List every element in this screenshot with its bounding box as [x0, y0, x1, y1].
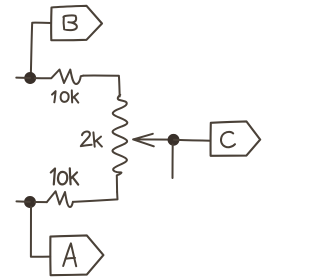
wire bottom node to resistor: [35, 201, 47, 203]
wire node to flag A: [31, 207, 50, 257]
wire wiper stub down: [172, 145, 174, 179]
wire left tail bottom: [17, 200, 30, 203]
resistor 10k top (squiggle): [35, 70, 84, 85]
junction dot wiper: [168, 135, 178, 145]
label 2k: [81, 131, 102, 146]
flag B: [51, 6, 102, 40]
wire pot bottom to corner: [73, 192, 118, 202]
flag C: [211, 121, 261, 155]
wire resistor to pot top: [83, 76, 119, 97]
junction dot top-left: [25, 73, 35, 83]
wire left tail top: [16, 77, 30, 79]
wire wiper to C: [174, 139, 210, 142]
wire B to top-left node: [31, 23, 51, 77]
flag A: [50, 235, 103, 275]
wiper arrow: [133, 134, 173, 147]
junction dot bottom-left: [25, 197, 35, 207]
label 10k bottom: [51, 168, 78, 184]
potentiometer 2k (vertical squiggle): [113, 95, 128, 192]
label 10k top: [52, 90, 78, 102]
resistor 10k bottom (squiggle): [47, 191, 73, 207]
